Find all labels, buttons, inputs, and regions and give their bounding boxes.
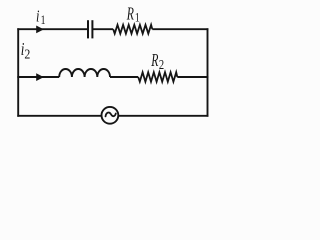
wire: bottom rail right segment [118,115,208,117]
AC source V circle [102,107,119,124]
svg-text:2: 2 [24,46,30,62]
wire: middle branch right segment [177,76,208,78]
svg-text:R: R [126,4,134,24]
wire: middle branch center segment [110,76,138,78]
arrow i1 current direction [36,26,44,34]
arrow i2 current direction [36,73,44,81]
label R1 [126,4,134,24]
svg-text:R: R [151,51,159,71]
svg-text:1: 1 [41,14,46,28]
svg-text:2: 2 [159,57,164,73]
AC source sine symbol [106,113,116,117]
wire: left vertical rail [17,28,19,116]
resistor R2 zigzag [138,72,177,81]
svg-text:i: i [36,8,39,26]
wire: bottom rail left segment [17,115,101,117]
resistor R1 zigzag [113,25,152,34]
wire: top branch right segment [152,28,208,30]
wire: middle branch left segment [17,76,59,78]
label R2 [151,51,159,71]
inductor L coil [59,69,110,77]
capacitor C (left plate) [87,20,89,38]
wire: top branch left segment [17,28,88,30]
svg-text:1: 1 [135,12,140,26]
wire: top branch middle segment [92,28,113,30]
capacitor C (right plate) [91,20,93,38]
label i1 [36,8,39,26]
wire: right vertical rail [207,28,209,116]
label i2 [21,40,25,59]
